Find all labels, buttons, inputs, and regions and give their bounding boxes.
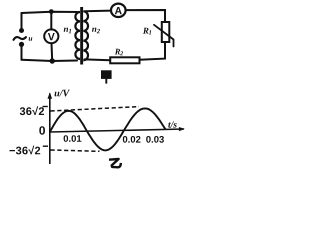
label 0 [39,126,45,135]
resistor R2 body [110,57,139,63]
wire secondary top [85,10,112,13]
label n2 [92,28,100,34]
label 0.01 [64,135,82,142]
sine curve u(t) [50,108,166,150]
transformer primary coil n1 [75,12,80,59]
wire R2 left lead [85,58,111,61]
wire top-left loop [22,12,78,13]
voltmeter V1 [44,29,58,43]
x-axis arrowhead [179,127,185,131]
label 0.02 [123,136,141,143]
label -36sqrt2 [10,146,41,155]
wire voltmeter branch bottom [51,43,54,61]
y-axis u/V [49,94,51,165]
wire left vertical lower [21,46,23,60]
label t/s [168,121,176,127]
label 0.03 [146,136,164,143]
wire R1 bottom lead [140,42,166,60]
label R2 [115,49,123,55]
node junction top of voltmeter branch [49,9,54,14]
label n1 [64,28,71,34]
node junction bottom of voltmeter branch [50,58,55,63]
transformer secondary coil n2 [83,11,88,60]
label jia (甲) [102,71,112,84]
node B bottom terminal of source [19,42,24,47]
label u/V [55,90,70,97]
rheostat R1 body [162,22,170,42]
label yi (乙) [109,159,121,167]
x-axis t/s [50,129,184,132]
y-axis arrowhead [48,92,53,99]
label R1 [143,28,151,35]
wire left vertical upper [21,13,23,29]
wire voltmeter branch top [50,12,52,30]
label 36sqrt2 [20,106,44,115]
ammeter A1 [111,4,126,17]
node A top terminal of source [19,28,24,33]
rheostat R1 slider arrow [154,25,174,47]
dashed line +36sqrt2 [51,107,140,111]
label u [29,37,33,41]
wire ammeter to corner [126,10,165,22]
wire bottom-left loop [22,60,78,61]
AC source tilde [14,37,27,40]
dashed line -36sqrt2 [51,150,100,151]
transformer core [80,7,83,65]
